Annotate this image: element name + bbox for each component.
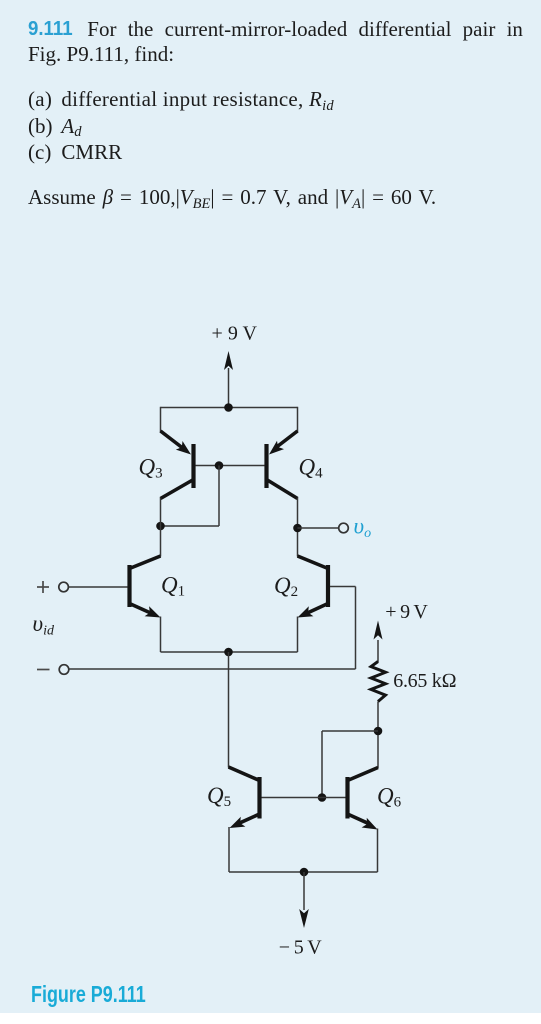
svg-text:Q6: Q6 [377,784,402,811]
svg-text:+ 9 V: + 9 V [212,322,258,344]
svg-text:υid: υid [33,611,55,639]
svg-text:6.65 kΩ: 6.65 kΩ [393,670,457,692]
svg-text:+ 9 V: + 9 V [385,601,428,623]
svg-text:− 5 V: − 5 V [279,937,323,959]
svg-text:Q2: Q2 [274,573,298,600]
svg-text:Q4: Q4 [299,455,324,482]
svg-text:Q1: Q1 [161,573,185,600]
svg-text:Q5: Q5 [207,783,231,810]
svg-text:υo: υo [354,514,372,542]
svg-text:Q3: Q3 [139,455,163,482]
